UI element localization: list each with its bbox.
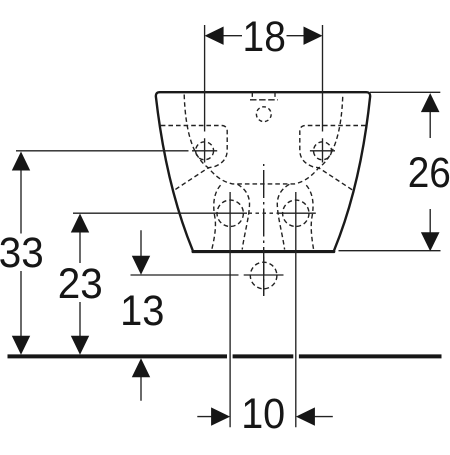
svg-text:33: 33 [0, 230, 44, 277]
svg-text:10: 10 [241, 391, 285, 438]
svg-text:18: 18 [243, 14, 286, 61]
svg-text:23: 23 [58, 261, 103, 308]
svg-text:13: 13 [120, 288, 164, 335]
svg-text:26: 26 [408, 150, 450, 197]
